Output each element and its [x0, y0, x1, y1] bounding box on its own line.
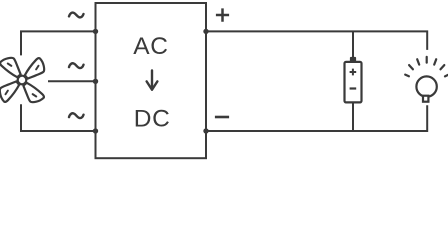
svg-text:AC: AC: [133, 33, 168, 60]
svg-text:DC: DC: [134, 106, 171, 133]
